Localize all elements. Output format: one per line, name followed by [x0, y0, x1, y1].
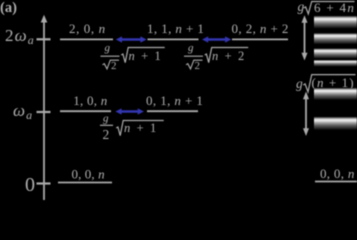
svg-text:0, 0, n: 0, 0, n	[72, 166, 105, 181]
svg-text:g: g	[103, 113, 109, 125]
svg-text:n + 1: n + 1	[129, 49, 163, 63]
svg-text:0: 0	[25, 174, 35, 196]
svg-text:6 + 4n: 6 + 4n	[314, 0, 355, 15]
svg-text:1, 1, n + 1: 1, 1, n + 1	[147, 21, 204, 36]
svg-text:(n + 1): (n + 1)	[312, 75, 355, 90]
svg-text:2: 2	[195, 60, 201, 72]
svg-text:2ωa: 2ωa	[5, 26, 35, 47]
svg-text:0, 2, n + 2: 0, 2, n + 2	[232, 21, 289, 36]
svg-text:2: 2	[103, 127, 110, 142]
svg-text:g: g	[298, 0, 305, 14]
svg-text:g: g	[188, 42, 194, 54]
svg-text:0, 1, n + 1: 0, 1, n + 1	[146, 93, 203, 108]
svg-text:(a): (a)	[0, 0, 17, 16]
svg-text:g: g	[296, 76, 303, 91]
svg-text:n + 2: n + 2	[212, 49, 246, 63]
svg-text:2: 2	[111, 60, 117, 72]
svg-text:ωa: ωa	[13, 101, 33, 122]
svg-text:n + 1: n + 1	[124, 121, 158, 135]
svg-text:2, 0, n: 2, 0, n	[69, 21, 106, 36]
svg-text:0, 0, n: 0, 0, n	[320, 166, 355, 181]
svg-text:g: g	[105, 42, 111, 54]
svg-text:1, 0, n: 1, 0, n	[73, 93, 107, 108]
